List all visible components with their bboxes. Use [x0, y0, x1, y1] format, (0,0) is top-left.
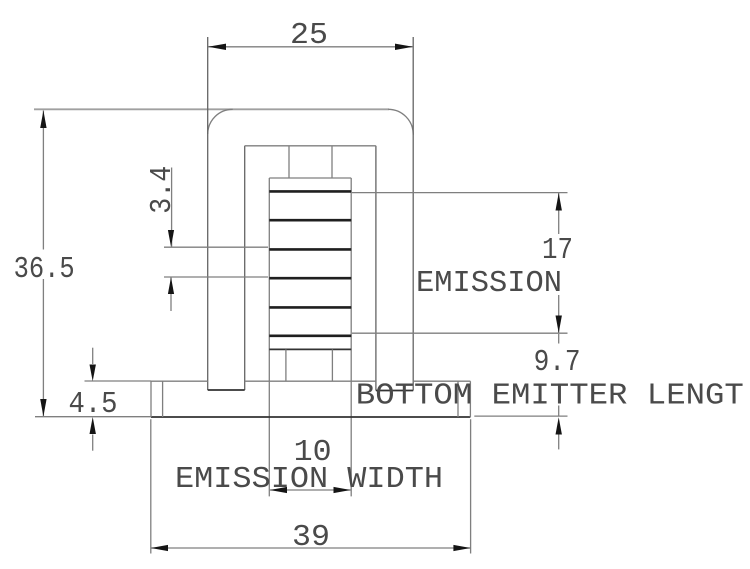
base left step line	[162, 381, 164, 417]
dim 17 dimension line upper segment	[558, 193, 560, 234]
emitter stack top edge	[269, 177, 351, 179]
dim 17 lower extension line	[352, 332, 568, 334]
base left edge	[150, 381, 152, 417]
dim 4.5 upper leader line	[92, 348, 94, 364]
housing inner left edge	[244, 146, 246, 390]
base top edge middle segment	[245, 380, 376, 382]
base top edge right segment	[413, 380, 470, 382]
emitter plate line 2	[269, 219, 351, 222]
emitter plate line 1	[269, 190, 351, 193]
dim 4.5 top extension line	[85, 380, 152, 382]
housing inner right edge	[375, 146, 377, 391]
dim 10 right arrow	[334, 487, 351, 493]
svg-text:EMISSION: EMISSION	[416, 266, 562, 301]
housing top-right corner arc	[388, 109, 413, 134]
emitter plate line 3	[269, 248, 351, 251]
dim 10 dimension line	[270, 489, 351, 491]
dim 39 right extension line	[470, 419, 472, 553]
svg-text:9.7: 9.7	[534, 345, 581, 380]
emitter plate line 4	[269, 277, 351, 280]
top tab left edge	[288, 146, 290, 178]
dim 3.4 lower leader line	[170, 278, 172, 312]
svg-text:39: 39	[292, 520, 330, 555]
svg-text:4.5: 4.5	[69, 387, 118, 422]
base right edge	[469, 381, 471, 417]
dim 9.7 up arrow below base	[556, 417, 562, 434]
dim 10 left arrow	[270, 487, 287, 493]
dim 3.4 upper leader line	[171, 168, 173, 247]
dim 17 up arrow	[556, 193, 562, 211]
dim 17 upper extension line	[352, 192, 568, 194]
right leg bottom edge	[376, 390, 413, 392]
dim 39 dimension line	[151, 547, 471, 549]
dim 4.5 upper arrow pointing down	[90, 365, 96, 382]
dim 39 left extension line	[150, 419, 152, 553]
dim 4.5 lower arrow pointing up	[90, 417, 96, 434]
dim 9.7 dimension line middle segment	[558, 406, 560, 417]
svg-text:17: 17	[542, 233, 573, 268]
dim 36.5 dimension line lower segment	[42, 279, 44, 417]
svg-text:36.5: 36.5	[14, 252, 75, 287]
housing inner top edge	[245, 145, 376, 147]
top tab right edge	[331, 146, 333, 178]
dim 9.7 dimension line tail	[558, 435, 560, 450]
dim 3.4 upper arrow pointing down	[168, 230, 174, 247]
housing top-left corner arc	[208, 109, 233, 134]
emitter plate line 5	[269, 306, 351, 309]
svg-text:BOTTOM EMITTER LENGT: BOTTOM EMITTER LENGT	[356, 379, 744, 414]
dim 39 left arrow	[151, 545, 168, 551]
dim 3.4 upper extension line	[164, 246, 268, 248]
dim 3.4 lower extension line	[164, 276, 268, 278]
svg-text:EMISSION WIDTH: EMISSION WIDTH	[175, 462, 443, 497]
dim 9.7 dimension line upper segment	[558, 334, 560, 344]
svg-text:3.4: 3.4	[145, 166, 180, 214]
emitter stack bottom edge	[269, 348, 351, 350]
dim 36.5 top arrow	[40, 111, 46, 129]
emitter stack left edge / emission width extension	[268, 178, 270, 496]
housing top edge with 36.5 extension line	[34, 108, 389, 110]
dim 36.5 dimension line upper segment	[42, 111, 44, 250]
dim 17 down arrow	[556, 316, 562, 334]
dim 25 dimension line	[208, 46, 413, 48]
base bottom edge	[151, 416, 470, 418]
svg-text:25: 25	[290, 18, 328, 53]
housing outer right edge / 25-dim right extension	[412, 37, 414, 391]
emitter plate line 6	[269, 334, 351, 337]
dim 39 right arrow	[453, 545, 470, 551]
dim 9.7 bottom extension line	[474, 415, 567, 417]
left leg bottom edge	[208, 389, 245, 391]
base right step line	[457, 381, 459, 417]
dim 25 left arrow	[208, 44, 226, 50]
dim 17 dimension line lower segment	[558, 295, 560, 333]
bottom tab left edge	[285, 349, 287, 381]
emitter stack right edge / emission width extension	[350, 178, 352, 496]
base top edge left segment	[151, 380, 208, 382]
dim 36.5 bottom arrow	[40, 399, 46, 417]
dim 25 right arrow	[395, 44, 413, 50]
dim 36.5 bottom extension line (shared with 4.5)	[35, 416, 151, 418]
housing outer left edge / 25-dim left extension	[207, 37, 209, 390]
dim 4.5 lower leader line	[92, 435, 94, 451]
bottom tab right edge	[331, 349, 333, 381]
dim 3.4 lower arrow pointing up	[168, 277, 174, 294]
